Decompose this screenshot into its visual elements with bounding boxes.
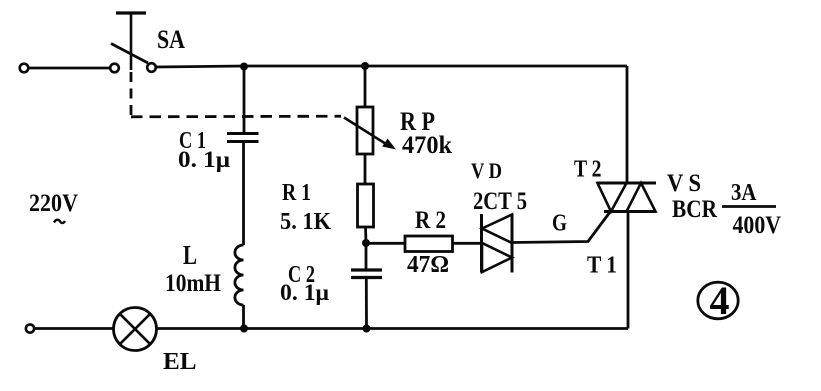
label RP xyxy=(400,107,435,136)
svg-text:220V: 220V xyxy=(29,190,78,217)
wire VD to gate xyxy=(512,212,610,243)
svg-text:R 1: R 1 xyxy=(282,180,311,206)
node junction top C1 xyxy=(240,63,248,71)
wire triac to bottom rail xyxy=(627,212,630,329)
wire node to R2 xyxy=(366,242,405,245)
figure number circle 4 xyxy=(698,278,738,323)
label T1 xyxy=(587,253,617,279)
switch SA blade xyxy=(111,44,148,64)
svg-text:BCR: BCR xyxy=(672,196,718,223)
svg-text:2CT 5: 2CT 5 xyxy=(473,188,527,215)
capacitor C1 xyxy=(227,134,259,142)
diac VD lower triangle xyxy=(482,243,512,272)
wire right side vertical (top) xyxy=(626,66,629,183)
wire bottom-left to lamp xyxy=(34,327,113,330)
svg-text:V S: V S xyxy=(667,170,701,197)
svg-text:G: G xyxy=(552,211,567,237)
switch SA left contact xyxy=(110,64,119,73)
svg-text:0. 1μ: 0. 1μ xyxy=(280,280,329,305)
wire top rail to RP xyxy=(364,66,367,107)
label BCR xyxy=(672,196,718,223)
capacitor C2 xyxy=(351,270,382,278)
svg-text:T 1: T 1 xyxy=(587,253,617,279)
label VD type 2CT5 xyxy=(473,188,527,215)
resistor R1 xyxy=(358,184,374,227)
label G xyxy=(552,211,567,237)
node junction bottom L xyxy=(240,325,248,333)
svg-text:R 2: R 2 xyxy=(415,207,446,234)
diac VD upper triangle xyxy=(482,215,512,244)
svg-text:47Ω: 47Ω xyxy=(407,252,449,278)
svg-text:400V: 400V xyxy=(733,212,782,239)
terminal bottom-left xyxy=(26,324,34,332)
dashed link horizontal to RP xyxy=(131,115,341,118)
wire top rail xyxy=(156,66,627,67)
diac VD left bar xyxy=(480,214,483,273)
label R2 xyxy=(415,207,446,234)
label R2 value 47ohm xyxy=(407,252,449,278)
switch SA actuator T-bar xyxy=(116,13,146,70)
triac VS bottom bar xyxy=(604,210,656,213)
label ~ xyxy=(54,220,65,223)
svg-text:SA: SA xyxy=(157,25,185,54)
wire C2 to bottom rail xyxy=(365,278,368,329)
svg-text:5. 1K: 5. 1K xyxy=(280,209,331,235)
label L value 10mH xyxy=(165,270,221,297)
dashed link vertical from SA xyxy=(130,72,133,117)
label EL xyxy=(163,349,197,375)
label SA xyxy=(157,25,185,54)
label 220V xyxy=(29,190,78,217)
wire L to bottom rail xyxy=(242,305,245,329)
fraction bar xyxy=(722,205,776,208)
wire bottom rail xyxy=(157,327,629,330)
svg-text:3A: 3A xyxy=(731,180,757,206)
svg-text:EL: EL xyxy=(163,349,197,375)
triac VS right triangle xyxy=(627,183,656,212)
switch SA right contact xyxy=(147,63,156,72)
node junction bottom C2 xyxy=(363,325,371,333)
potentiometer RP body xyxy=(357,107,373,154)
label C1 value 0.1u xyxy=(178,147,230,172)
label L xyxy=(183,240,197,270)
triac VS top bar xyxy=(597,182,656,185)
label R1 value 5.1K xyxy=(280,209,331,235)
label R1 xyxy=(282,180,311,206)
inductor L xyxy=(235,245,244,305)
wire C1 top xyxy=(243,66,246,133)
label VS xyxy=(667,170,701,197)
diac VD right bar xyxy=(511,214,514,273)
terminal top-left xyxy=(20,64,29,73)
wire node to C2 xyxy=(365,243,368,270)
potentiometer RP arrow xyxy=(344,118,396,150)
label VD xyxy=(471,158,502,183)
node junction top RP xyxy=(361,62,369,70)
svg-text:4: 4 xyxy=(710,278,730,323)
wire top-left to switch xyxy=(29,67,111,70)
svg-text:470k: 470k xyxy=(402,132,452,159)
label C2 xyxy=(288,262,315,288)
label RP value 470k xyxy=(402,132,452,159)
svg-text:T 2: T 2 xyxy=(574,157,602,183)
wire R2 to VD xyxy=(453,242,482,245)
label 3A xyxy=(731,180,757,206)
node junction gate row xyxy=(362,239,370,247)
label T2 xyxy=(574,157,602,183)
wire R1 to node xyxy=(364,227,367,243)
svg-text:0. 1μ: 0. 1μ xyxy=(178,147,230,172)
label C1 xyxy=(179,128,206,154)
svg-text:L: L xyxy=(183,240,197,270)
label 400V xyxy=(733,212,782,239)
svg-text:V D: V D xyxy=(471,158,502,183)
resistor R2 xyxy=(405,236,453,252)
svg-text:10mH: 10mH xyxy=(165,270,221,297)
wire C1 to L xyxy=(242,142,245,246)
triac VS left triangle xyxy=(598,183,627,212)
label C2 value 0.1u xyxy=(280,280,329,305)
wire RP to R1 xyxy=(364,154,367,184)
lamp EL xyxy=(114,308,157,351)
